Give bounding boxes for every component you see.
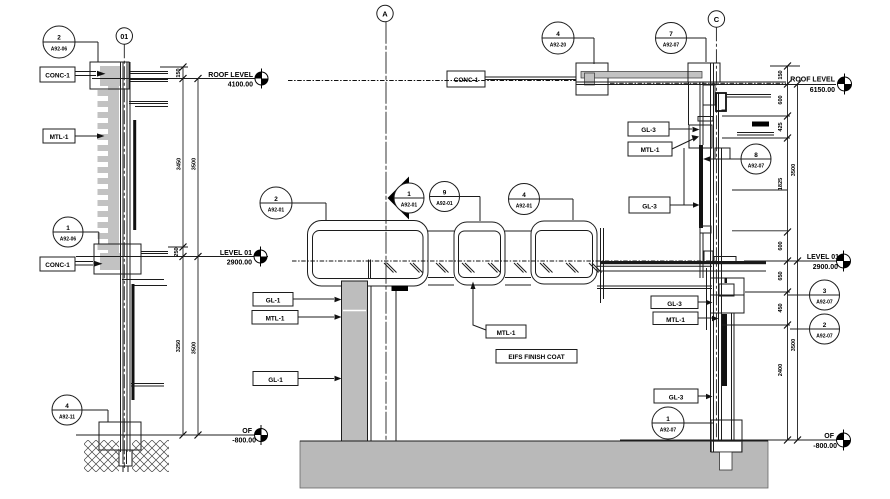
callout 4/A92-01 [509, 184, 574, 221]
svg-text:4: 4 [65, 403, 69, 410]
svg-text:LEVEL 01: LEVEL 01 [807, 254, 839, 261]
level 01 line right [744, 260, 837, 262]
svg-text:3500: 3500 [192, 342, 198, 354]
wall: lines at level 01 [122, 252, 168, 387]
svg-text:4: 4 [556, 31, 560, 38]
svg-text:2400: 2400 [778, 364, 784, 376]
mullion line below band [371, 286, 396, 442]
svg-text:A92-11: A92-11 [59, 415, 75, 421]
label MTL-1 (left) [43, 129, 105, 143]
roof level symbol left [255, 69, 268, 89]
callout 2/A92-07 [790, 314, 840, 344]
label MTL-1 (center) with leader [471, 282, 527, 339]
level 01 symbol left [254, 247, 267, 267]
label GL-1 (lower) [253, 372, 342, 386]
gray column [342, 281, 368, 441]
svg-text:GL-1: GL-1 [266, 298, 281, 305]
callout 2/A92-01 [260, 187, 326, 220]
level 01 dashed line middle [292, 260, 716, 262]
section flag diamond at grid A [388, 177, 410, 220]
svg-text:CONC-1: CONC-1 [45, 73, 70, 80]
svg-text:250: 250 [174, 247, 180, 256]
foundation stub [119, 450, 132, 466]
ground hatch right [132, 440, 169, 472]
louver window 2 outer [454, 222, 505, 285]
label GL-3 (lower) [654, 389, 713, 403]
louver window 1 outer [308, 221, 429, 287]
svg-text:2: 2 [274, 196, 278, 203]
svg-text:8: 8 [754, 152, 758, 159]
svg-text:-800.00: -800.00 [813, 443, 837, 450]
svg-text:ROOF LEVEL: ROOF LEVEL [208, 72, 253, 79]
svg-text:A92-07: A92-07 [663, 43, 680, 49]
dimension lines right chain [788, 66, 798, 440]
wall: vertical framing lines [121, 62, 137, 452]
svg-text:3500: 3500 [192, 158, 198, 170]
glazing ticks [384, 263, 602, 273]
roof level line left [92, 78, 268, 80]
roof level symbol right [838, 74, 852, 95]
callout 3/A92-07 [788, 280, 840, 310]
svg-text:A92-06: A92-06 [51, 47, 68, 53]
svg-text:A92-01: A92-01 [516, 204, 533, 210]
svg-text:A: A [382, 10, 388, 19]
svg-text:1: 1 [407, 191, 411, 198]
grid line C [715, 27, 717, 473]
OF symbol right [837, 430, 851, 451]
grid bubble 01 [116, 28, 132, 44]
roof level dashed line middle [288, 80, 576, 82]
right wall step box below glazing [700, 226, 711, 233]
black sill bar below window 1 [392, 286, 409, 292]
level 01 symbol right [837, 251, 851, 272]
label GL-3 (mid-upper) [629, 197, 700, 213]
boxes below level 01 right [711, 278, 745, 295]
louver window 2 inner [459, 231, 501, 278]
svg-text:CONC-1: CONC-1 [45, 262, 70, 269]
svg-text:01: 01 [120, 34, 128, 41]
label MTL-1 (right upper) [628, 135, 699, 156]
svg-text:CONC-1: CONC-1 [454, 77, 479, 84]
svg-text:GL-3: GL-3 [641, 127, 656, 134]
roof double line to bracket [485, 77, 576, 80]
callout 7/A92-07 [656, 23, 707, 63]
svg-text:ROOF LEVEL: ROOF LEVEL [790, 77, 835, 84]
right wall glass pane offset line [683, 148, 685, 205]
svg-text:MTL-1: MTL-1 [497, 330, 516, 337]
ground hatch left [84, 440, 119, 472]
label GL-3 (upper) [628, 122, 700, 136]
svg-text:MTL-1: MTL-1 [50, 134, 69, 141]
soffit lines below roof [726, 95, 774, 136]
svg-text:3250: 3250 [176, 340, 182, 352]
OF line right [620, 439, 837, 441]
small post in window 1 [369, 260, 371, 279]
svg-text:GL-3: GL-3 [667, 301, 682, 308]
louver window 3 inner [536, 231, 593, 278]
roof bracket block [576, 63, 608, 95]
dimension line left chain [160, 67, 198, 435]
svg-text:2900.00: 2900.00 [813, 264, 838, 271]
svg-text:LEVEL 01: LEVEL 01 [220, 250, 252, 257]
svg-text:GL-1: GL-1 [268, 377, 283, 384]
callout 1/A92-01 [394, 183, 424, 213]
svg-text:MTL-1: MTL-1 [641, 147, 660, 154]
level 01 beam right [714, 257, 736, 263]
svg-text:C: C [714, 15, 720, 24]
svg-text:A92-01: A92-01 [268, 208, 285, 214]
svg-text:-800.00: -800.00 [232, 438, 256, 445]
svg-text:EIFS FINISH COAT: EIFS FINISH COAT [508, 354, 564, 361]
label CONC-1 (lower left) [40, 257, 103, 271]
callout 4/A92-11 [52, 395, 108, 425]
svg-text:650: 650 [778, 271, 784, 280]
wall: mid box at level 01 [94, 244, 141, 274]
right wall bold glazing bar [722, 314, 727, 386]
svg-text:OF: OF [824, 433, 834, 440]
label CONC-1 (top left) [40, 67, 106, 82]
grid line A [385, 22, 387, 441]
svg-text:1: 1 [66, 225, 70, 232]
svg-text:GL-3: GL-3 [642, 204, 657, 211]
svg-text:A92-06: A92-06 [60, 237, 77, 243]
svg-text:A92-01: A92-01 [401, 203, 418, 209]
svg-text:GL-3: GL-3 [669, 394, 684, 401]
callout 1/A92-07 [652, 407, 713, 439]
black bar (blocking) [752, 122, 769, 127]
grid line 01 [123, 44, 125, 468]
svg-text:3500: 3500 [791, 164, 797, 176]
svg-text:A92-07: A92-07 [816, 300, 833, 306]
roof beam gray [581, 72, 702, 79]
svg-text:A92-07: A92-07 [748, 164, 765, 170]
louver band lines in gaps [428, 231, 531, 285]
wall: glazing bold bar upper [133, 120, 136, 230]
louver window 3 outer [531, 221, 597, 284]
dimension ticks right [784, 63, 801, 444]
svg-text:425: 425 [778, 122, 784, 131]
louver window 1 inner [313, 231, 424, 279]
dimension ticks left [180, 64, 202, 439]
svg-text:150: 150 [176, 68, 182, 77]
duct band to right wall [597, 266, 766, 288]
svg-text:4: 4 [522, 192, 526, 199]
grid bubble C [708, 11, 724, 27]
label GL-1 (upper) [253, 293, 342, 307]
OF symbol left [255, 425, 268, 445]
svg-text:A92-07: A92-07 [660, 428, 677, 434]
svg-text:450: 450 [778, 303, 784, 312]
wall: glazing bold bar lower [132, 284, 135, 400]
callout 8/A92-07 [703, 144, 771, 174]
foundation box left [99, 422, 141, 450]
label EIFS FINISH COAT [496, 350, 577, 364]
slab top line [300, 440, 768, 442]
label CONC-1 (middle roof) [447, 71, 485, 87]
callout 2/A92-06 [43, 26, 98, 62]
white cut for right foundation in slab [712, 442, 741, 453]
svg-text:3450: 3450 [177, 158, 183, 170]
svg-text:3500: 3500 [791, 339, 797, 351]
window 3 right edge double lines [601, 228, 604, 303]
wall: gray insulation teeth strip [98, 66, 121, 270]
callout 9/A92-01 [430, 182, 481, 222]
right wall vertical framing [689, 63, 735, 452]
label MTL-1 (right mid) [653, 312, 719, 325]
svg-text:A92-01: A92-01 [436, 201, 453, 207]
label MTL-1 (mid-left) [252, 311, 342, 325]
svg-text:OF: OF [242, 428, 252, 435]
right wall head box [716, 93, 726, 111]
right foundation box [711, 420, 742, 452]
svg-text:MTL-1: MTL-1 [266, 316, 285, 323]
right roof bracket [688, 63, 720, 82]
svg-text:MTL-1: MTL-1 [666, 317, 685, 324]
svg-text:2: 2 [57, 35, 61, 42]
right wall bold glazing bar upper [699, 145, 703, 228]
ground slab [300, 441, 768, 488]
OF line left [76, 434, 268, 436]
svg-text:600: 600 [778, 241, 784, 250]
svg-text:A92-07: A92-07 [816, 334, 833, 340]
svg-text:9: 9 [443, 189, 447, 196]
wall: slab connection lines at roof [129, 72, 168, 107]
wall: header box at roof [90, 62, 129, 89]
svg-text:2900.00: 2900.00 [227, 260, 252, 267]
white notch in slab [720, 452, 733, 470]
svg-text:A92-20: A92-20 [550, 43, 567, 49]
svg-text:6150.00: 6150.00 [810, 87, 835, 94]
level 01 line left [76, 256, 268, 258]
label GL-3 (mid) [651, 296, 713, 309]
callout 4/A92-20 [542, 22, 594, 64]
roof line right double [576, 82, 836, 85]
svg-text:1825: 1825 [778, 178, 784, 190]
extension lines right [722, 66, 800, 325]
svg-text:3: 3 [823, 288, 827, 295]
svg-text:600: 600 [778, 95, 784, 104]
callout 1/A92-06 [53, 217, 99, 247]
svg-text:150: 150 [778, 70, 784, 79]
grid bubble A [377, 5, 393, 21]
svg-text:4100.00: 4100.00 [228, 82, 253, 89]
svg-text:1: 1 [666, 416, 670, 423]
svg-text:2: 2 [823, 322, 827, 329]
svg-text:7: 7 [669, 31, 673, 38]
